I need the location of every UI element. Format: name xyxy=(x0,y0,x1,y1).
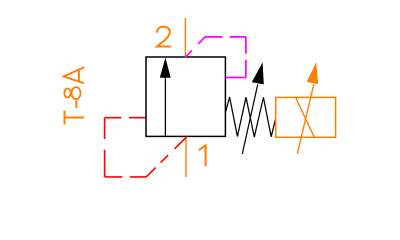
pilot line magenta: diagonal from port 2 junction xyxy=(185,37,205,57)
orifice diagonal line xyxy=(296,98,315,138)
pilot line red: vertical xyxy=(104,118,106,177)
pilot line magenta: bottom horizontal to valve right side xyxy=(225,77,246,79)
label port 2 xyxy=(157,27,171,47)
label T-8A letter A xyxy=(64,67,85,83)
pilot line red: bottom horizontal xyxy=(105,176,147,178)
spring S1 xyxy=(226,97,276,137)
orifice adjustment arrow shaft xyxy=(297,84,314,154)
pilot line red: top horizontal to valve left side xyxy=(105,117,146,119)
adjustment arrowhead xyxy=(252,62,264,84)
pilot line red: diagonal from port 1 junction xyxy=(146,137,186,177)
flow path arrowhead xyxy=(160,58,171,78)
variable orifice box U2 xyxy=(276,97,336,137)
valve body V1 xyxy=(146,57,225,136)
label port 1 xyxy=(199,145,206,166)
label T-8A digit 8 xyxy=(64,87,80,99)
label T-8A hyphen xyxy=(75,100,77,108)
pilot line magenta: vertical xyxy=(245,37,247,78)
port 1 wire xyxy=(185,137,187,177)
flow path arrow shaft xyxy=(164,78,166,137)
orifice adjustment arrowhead xyxy=(307,62,318,84)
pilot line magenta: top horizontal xyxy=(205,36,246,38)
label T-8A letter T xyxy=(65,111,85,125)
adjustment arrow shaft xyxy=(242,85,257,155)
port 2 wire xyxy=(184,18,186,57)
